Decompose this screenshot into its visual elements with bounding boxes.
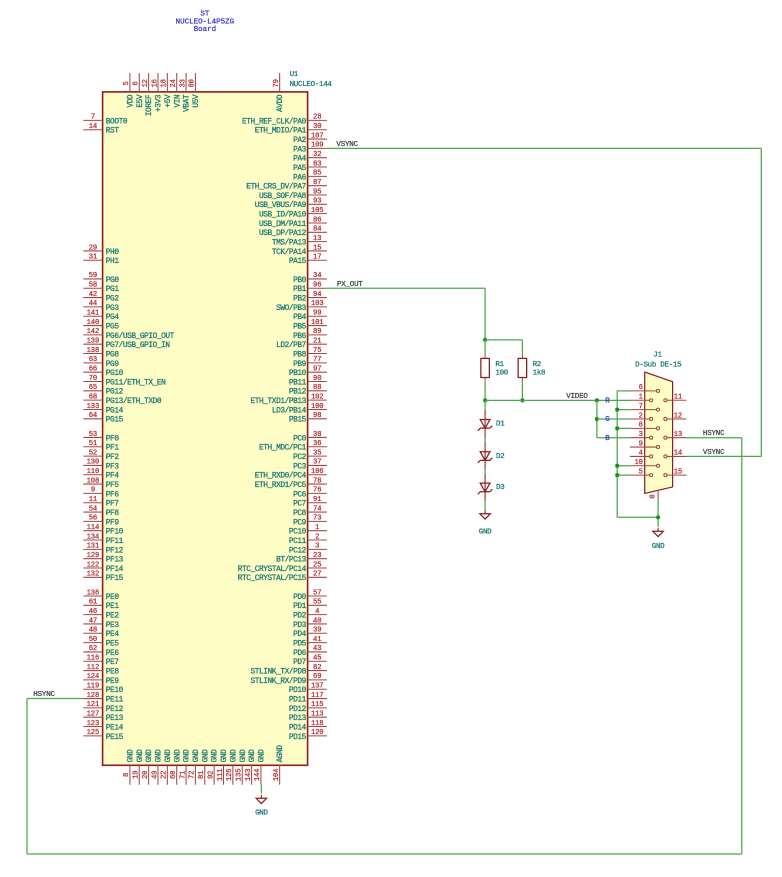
pin 58 PG1 (left) bbox=[83, 282, 119, 295]
pin 71 GND (bottom) bbox=[179, 749, 191, 785]
pin 32 PA4 (right) bbox=[293, 151, 327, 164]
svg-text:41: 41 bbox=[313, 636, 321, 644]
svg-text:127: 127 bbox=[87, 711, 100, 719]
svg-text:23: 23 bbox=[313, 552, 321, 560]
svg-text:PD5: PD5 bbox=[293, 641, 307, 649]
svg-text:PC12: PC12 bbox=[289, 547, 307, 555]
svg-text:HSYNC: HSYNC bbox=[33, 691, 55, 699]
svg-text:106: 106 bbox=[311, 468, 324, 476]
svg-text:117: 117 bbox=[311, 692, 324, 700]
pin 84 USB_DP/PA12 (right) bbox=[259, 226, 327, 239]
pin 5 VDD (top) bbox=[123, 73, 135, 108]
svg-text:34: 34 bbox=[313, 272, 321, 280]
svg-text:1: 1 bbox=[315, 524, 319, 532]
svg-text:119: 119 bbox=[87, 683, 100, 691]
wire GND bus vertical bbox=[616, 391, 618, 517]
wire VSYNC into J1 pin 14 bbox=[687, 455, 762, 457]
pin 35 PC2 (right) bbox=[293, 449, 327, 462]
svg-text:R2: R2 bbox=[533, 361, 541, 369]
svg-text:PD15: PD15 bbox=[289, 734, 307, 742]
pin 31 PH1 (left) bbox=[83, 254, 119, 267]
svg-text:142: 142 bbox=[87, 328, 100, 336]
pin 57 PD0 (right) bbox=[293, 589, 327, 602]
svg-text:113: 113 bbox=[311, 711, 324, 719]
svg-text:PE14: PE14 bbox=[106, 724, 124, 732]
svg-text:6: 6 bbox=[133, 81, 141, 85]
wire VSYNC horizontal from PA3 bbox=[327, 147, 761, 149]
pin 22 GND (bottom) bbox=[161, 749, 173, 785]
svg-text:HSYNC: HSYNC bbox=[703, 430, 725, 438]
svg-text:PD14: PD14 bbox=[289, 724, 307, 732]
svg-text:43: 43 bbox=[313, 645, 321, 653]
svg-text:13: 13 bbox=[674, 431, 682, 439]
svg-text:130: 130 bbox=[87, 459, 100, 467]
svg-text:GND: GND bbox=[255, 810, 268, 818]
svg-text:52: 52 bbox=[89, 449, 97, 457]
svg-text:110: 110 bbox=[87, 468, 100, 476]
svg-text:123: 123 bbox=[87, 720, 100, 728]
pin 108 PF5 (left) bbox=[83, 477, 119, 490]
svg-text:27: 27 bbox=[313, 571, 321, 579]
svg-text:VIDEO: VIDEO bbox=[566, 393, 588, 401]
svg-text:PA6: PA6 bbox=[293, 174, 307, 182]
svg-text:ETH_CRS_DV/PA7: ETH_CRS_DV/PA7 bbox=[246, 184, 306, 192]
pin 86 USB_DM/PA11 (right) bbox=[259, 216, 327, 229]
svg-text:61: 61 bbox=[89, 599, 97, 607]
pin 144 GND (bottom) bbox=[254, 749, 266, 785]
wire VSYNC vertical right side bbox=[760, 148, 762, 456]
pin 8 J1 (left) bbox=[630, 422, 658, 430]
svg-text:92: 92 bbox=[207, 771, 215, 779]
pin 53 PF0 (left) bbox=[83, 431, 119, 444]
svg-text:101: 101 bbox=[311, 319, 324, 327]
svg-text:87: 87 bbox=[313, 179, 321, 187]
svg-text:+5V: +5V bbox=[165, 94, 173, 108]
svg-text:19: 19 bbox=[133, 771, 141, 779]
wire D1 to D2 bbox=[484, 438, 486, 443]
pin 134 PF11 (left) bbox=[83, 533, 123, 546]
svg-text:R1: R1 bbox=[495, 361, 504, 369]
svg-text:GND: GND bbox=[221, 749, 229, 763]
connector J1 body bbox=[645, 372, 673, 493]
svg-text:76: 76 bbox=[313, 487, 321, 495]
wire R1 top to R2 top bbox=[485, 339, 522, 341]
svg-text:91: 91 bbox=[313, 496, 321, 504]
svg-text:88: 88 bbox=[313, 384, 321, 392]
wire HSYNC from J1 pin 13 bbox=[687, 437, 742, 439]
pin 19 GND (bottom) bbox=[133, 749, 145, 785]
pin 133 PG14 (left) bbox=[83, 403, 123, 416]
svg-text:79: 79 bbox=[273, 79, 281, 87]
pin 43 PD6 (right) bbox=[293, 645, 327, 658]
svg-text:J1: J1 bbox=[653, 351, 662, 359]
node junction pin 5 bbox=[615, 473, 619, 477]
pin 135 GND (bottom) bbox=[236, 749, 248, 785]
svg-text:RST: RST bbox=[106, 128, 120, 136]
svg-text:111: 111 bbox=[217, 769, 225, 782]
svg-text:139: 139 bbox=[87, 338, 100, 346]
pin 95 USB_SOF/PA8 (right) bbox=[259, 188, 327, 201]
svg-text:5: 5 bbox=[639, 468, 643, 476]
pin 60 GND (bottom) bbox=[170, 749, 182, 785]
pin 47 PE3 (left) bbox=[83, 617, 119, 630]
wire GND bus to pin 5 bbox=[617, 474, 630, 476]
svg-text:45: 45 bbox=[313, 655, 321, 663]
pin 97 PB10 (right) bbox=[289, 365, 327, 378]
svg-text:GND: GND bbox=[202, 749, 210, 763]
svg-text:99: 99 bbox=[313, 310, 321, 318]
svg-text:PF0: PF0 bbox=[106, 435, 120, 443]
svg-text:74: 74 bbox=[313, 505, 321, 513]
pin 83 PA5 (right) bbox=[293, 160, 327, 173]
pin 7 BOOT0 (left) bbox=[83, 114, 128, 127]
svg-text:USB_VBUS/PA9: USB_VBUS/PA9 bbox=[255, 202, 307, 210]
svg-text:PD11: PD11 bbox=[289, 696, 307, 704]
resistor R2 bbox=[518, 354, 545, 382]
pin 40 PD3 (right) bbox=[293, 617, 327, 630]
svg-text:109: 109 bbox=[311, 142, 324, 150]
pin 80 U5V (top) bbox=[189, 73, 201, 108]
svg-text:PB0: PB0 bbox=[293, 277, 307, 285]
pin 91 PC7 (right) bbox=[293, 496, 327, 509]
pin 115 PD12 (right) bbox=[289, 701, 327, 714]
svg-text:VIN: VIN bbox=[174, 94, 182, 108]
node junction R2 bottom / VIDEO bbox=[520, 398, 524, 402]
svg-text:ST: ST bbox=[200, 11, 210, 19]
svg-text:71: 71 bbox=[179, 771, 187, 779]
pin 52 PF2 (left) bbox=[83, 449, 119, 462]
svg-text:GND: GND bbox=[174, 749, 182, 763]
svg-text:136: 136 bbox=[87, 589, 100, 597]
svg-text:PE3: PE3 bbox=[106, 622, 120, 630]
svg-text:63: 63 bbox=[89, 356, 97, 364]
svg-text:PC11: PC11 bbox=[289, 538, 307, 546]
svg-text:73: 73 bbox=[313, 515, 321, 523]
svg-text:PC0: PC0 bbox=[293, 435, 307, 443]
svg-text:50: 50 bbox=[89, 636, 97, 644]
svg-text:8: 8 bbox=[123, 773, 131, 777]
svg-text:PF7: PF7 bbox=[106, 501, 120, 509]
svg-text:31: 31 bbox=[89, 254, 97, 262]
svg-text:PX_OUT: PX_OUT bbox=[337, 281, 364, 289]
pin 27 RTC_CRYSTAL/PC15 (right) bbox=[238, 571, 327, 584]
pin 87 ETH_CRS_DV/PA7 (right) bbox=[246, 179, 327, 192]
pin 123 PE14 (left) bbox=[83, 720, 123, 733]
svg-text:128: 128 bbox=[87, 692, 100, 700]
pin 37 PC3 (right) bbox=[293, 459, 327, 472]
svg-text:72: 72 bbox=[189, 771, 197, 779]
svg-text:PE5: PE5 bbox=[106, 641, 120, 649]
pin 92 GND (bottom) bbox=[207, 749, 219, 785]
node junction G branch bbox=[595, 417, 599, 421]
svg-text:42: 42 bbox=[89, 291, 97, 299]
pin 139 PG7/USB_GPIO_IN (left) bbox=[83, 338, 170, 351]
svg-text:118: 118 bbox=[311, 720, 324, 728]
svg-text:20: 20 bbox=[142, 771, 150, 779]
svg-text:PH1: PH1 bbox=[106, 258, 120, 266]
svg-text:PE7: PE7 bbox=[106, 659, 120, 667]
pin 117 PD11 (right) bbox=[289, 692, 327, 705]
svg-text:3: 3 bbox=[639, 431, 643, 439]
svg-text:105: 105 bbox=[311, 207, 324, 215]
svg-text:PD0: PD0 bbox=[293, 594, 307, 602]
svg-text:PE15: PE15 bbox=[106, 734, 124, 742]
svg-text:115: 115 bbox=[311, 701, 324, 709]
pin 125 PE15 (left) bbox=[83, 729, 123, 742]
pin 64 PG15 (left) bbox=[83, 412, 123, 425]
svg-text:PG9: PG9 bbox=[106, 361, 120, 369]
svg-text:6: 6 bbox=[639, 384, 643, 392]
svg-text:2: 2 bbox=[639, 412, 643, 420]
svg-text:15: 15 bbox=[313, 244, 321, 252]
pin 70 PG11/ETH_TX_EN (left) bbox=[83, 375, 166, 388]
node junction R1/R2 top bbox=[483, 338, 487, 342]
svg-text:ETH_MDC/PC1: ETH_MDC/PC1 bbox=[259, 445, 307, 453]
svg-text:48: 48 bbox=[89, 627, 97, 635]
pin 2 J1 (left) bbox=[630, 412, 651, 420]
pin 122 PF14 (left) bbox=[83, 561, 123, 574]
pin 96 PB1 (right) bbox=[293, 282, 327, 295]
svg-text:PA5: PA5 bbox=[293, 165, 307, 173]
pin 3 J1 (left) bbox=[630, 431, 651, 439]
pin 9 J1 (left) bbox=[630, 440, 658, 448]
svg-text:GND: GND bbox=[240, 749, 248, 763]
svg-text:PG14: PG14 bbox=[106, 407, 124, 415]
pin 1 PC10 (right) bbox=[289, 524, 327, 537]
svg-text:33: 33 bbox=[179, 79, 187, 87]
svg-text:8: 8 bbox=[639, 422, 643, 430]
pin 51 PF1 (left) bbox=[83, 440, 119, 453]
svg-text:98: 98 bbox=[313, 412, 321, 420]
pin 118 PD14 (right) bbox=[289, 720, 327, 733]
svg-text:BT/PC13: BT/PC13 bbox=[276, 557, 307, 565]
svg-text:STLINK_TX/PD8: STLINK_TX/PD8 bbox=[251, 668, 307, 676]
wire GND bus bottom bbox=[617, 516, 658, 518]
svg-text:112: 112 bbox=[87, 664, 100, 672]
svg-text:ETH_TXD1/PB13: ETH_TXD1/PB13 bbox=[251, 398, 307, 406]
svg-text:PG8: PG8 bbox=[106, 351, 120, 359]
pin 136 PE0 (left) bbox=[83, 589, 119, 602]
pin 131 PF12 (left) bbox=[83, 543, 123, 556]
svg-text:64: 64 bbox=[89, 412, 97, 420]
pin 17 PA15 (right) bbox=[289, 254, 327, 267]
pin 78 ETH_RXD1/PC5 (right) bbox=[255, 477, 327, 490]
svg-text:14: 14 bbox=[89, 123, 97, 131]
svg-text:B: B bbox=[605, 435, 610, 443]
pin 15 J1 (right) bbox=[665, 468, 686, 476]
svg-text:17: 17 bbox=[313, 254, 321, 262]
pin 127 PE13 (left) bbox=[83, 711, 123, 724]
svg-text:GND: GND bbox=[479, 528, 492, 536]
svg-text:86: 86 bbox=[313, 216, 321, 224]
svg-text:IOREF: IOREF bbox=[146, 94, 154, 116]
svg-text:1: 1 bbox=[639, 394, 643, 402]
svg-text:PC2: PC2 bbox=[293, 454, 307, 462]
svg-text:USB_ID/PA10: USB_ID/PA10 bbox=[259, 212, 307, 220]
pin 25 RTC_CRYSTAL/PC14 (right) bbox=[238, 561, 327, 574]
pin 109 PA3 (right) bbox=[293, 142, 327, 155]
svg-text:PB10: PB10 bbox=[289, 370, 307, 378]
svg-text:121: 121 bbox=[87, 701, 100, 709]
wire to J1 pin 3 (B) bbox=[597, 437, 630, 439]
pin 11 J1 (right) bbox=[665, 394, 686, 402]
svg-text:69: 69 bbox=[313, 673, 321, 681]
pin 20 GND (bottom) bbox=[142, 749, 154, 785]
svg-text:PG0: PG0 bbox=[106, 277, 120, 285]
svg-text:107: 107 bbox=[311, 132, 324, 140]
svg-text:PF10: PF10 bbox=[106, 529, 124, 537]
svg-text:PD3: PD3 bbox=[293, 622, 307, 630]
svg-text:GND: GND bbox=[249, 749, 257, 763]
svg-text:GND: GND bbox=[212, 749, 220, 763]
pin 102 ETH_TXD1/PB13 (right) bbox=[251, 393, 327, 406]
svg-text:PF4: PF4 bbox=[106, 473, 120, 481]
svg-text:U5V: U5V bbox=[193, 94, 201, 108]
svg-text:38: 38 bbox=[313, 431, 321, 439]
svg-text:PG3: PG3 bbox=[106, 305, 120, 313]
svg-text:PF15: PF15 bbox=[106, 575, 124, 583]
svg-text:2: 2 bbox=[315, 533, 319, 541]
svg-text:11: 11 bbox=[89, 496, 97, 504]
svg-text:100: 100 bbox=[311, 403, 324, 411]
svg-text:104: 104 bbox=[273, 769, 281, 782]
node junction VIDEO branch bbox=[595, 398, 599, 402]
pin 69 STLINK_RX/PD9 (right) bbox=[251, 673, 327, 686]
svg-text:PB2: PB2 bbox=[293, 295, 307, 303]
pin 100 LD3/PB14 (right) bbox=[272, 403, 327, 416]
svg-text:PD13: PD13 bbox=[289, 715, 307, 723]
svg-text:1k8: 1k8 bbox=[533, 370, 546, 378]
svg-text:PF14: PF14 bbox=[106, 566, 124, 574]
svg-text:59: 59 bbox=[89, 272, 97, 280]
svg-text:82: 82 bbox=[313, 664, 321, 672]
svg-text:32: 32 bbox=[313, 151, 321, 159]
svg-text:116: 116 bbox=[87, 655, 100, 663]
diode D3 bbox=[478, 474, 505, 501]
svg-text:G: G bbox=[605, 416, 609, 424]
svg-text:PE9: PE9 bbox=[106, 678, 120, 686]
pin 72 GND (bottom) bbox=[189, 749, 201, 785]
ground below J1 bbox=[652, 528, 665, 551]
svg-text:PG11/ETH_TX_EN: PG11/ETH_TX_EN bbox=[106, 379, 166, 387]
pin 9 PF6 (left) bbox=[83, 487, 119, 500]
pin 11 PF7 (left) bbox=[83, 496, 119, 509]
svg-text:E5V: E5V bbox=[137, 94, 145, 108]
pin 4 J1 (left) bbox=[630, 450, 651, 458]
pin 0 J1 shield bbox=[650, 490, 659, 501]
pin 103 SWO/PB3 (right) bbox=[276, 300, 327, 313]
svg-text:49: 49 bbox=[151, 771, 159, 779]
svg-text:Board: Board bbox=[194, 26, 217, 34]
node junction pin 8 bbox=[615, 426, 619, 430]
pin 90 PB11 (right) bbox=[289, 375, 327, 388]
svg-text:PE11: PE11 bbox=[106, 696, 124, 704]
pin 55 PD1 (right) bbox=[293, 599, 327, 612]
pin 142 PG6/USB_GPIO_OUT (left) bbox=[83, 328, 174, 341]
svg-text:PD2: PD2 bbox=[293, 613, 307, 621]
pin 110 PF4 (left) bbox=[83, 468, 119, 481]
pin 121 PE12 (left) bbox=[83, 701, 123, 714]
svg-text:PD4: PD4 bbox=[293, 631, 307, 639]
svg-text:102: 102 bbox=[311, 393, 324, 401]
svg-text:AGND: AGND bbox=[277, 745, 285, 763]
svg-text:VSYNC: VSYNC bbox=[703, 449, 725, 457]
svg-text:0: 0 bbox=[650, 494, 658, 498]
svg-text:78: 78 bbox=[313, 477, 321, 485]
svg-text:LD3/PB14: LD3/PB14 bbox=[272, 407, 307, 415]
svg-text:13: 13 bbox=[313, 235, 321, 243]
svg-text:120: 120 bbox=[311, 729, 324, 737]
svg-text:89: 89 bbox=[313, 328, 321, 336]
wire HSYNC vertical left bbox=[26, 699, 28, 854]
svg-text:USB_SOF/PA8: USB_SOF/PA8 bbox=[259, 193, 307, 201]
svg-text:PE12: PE12 bbox=[106, 706, 124, 714]
svg-text:PB9: PB9 bbox=[293, 361, 307, 369]
wire HSYNC vertical right bbox=[741, 438, 743, 854]
svg-text:122: 122 bbox=[87, 561, 100, 569]
pin 30 ETH_MDIO/PA1 (right) bbox=[255, 123, 327, 136]
svg-text:ETH_MDIO/PA1: ETH_MDIO/PA1 bbox=[255, 128, 307, 136]
pin 59 PG0 (left) bbox=[83, 272, 119, 285]
pin 63 PG9 (left) bbox=[83, 356, 119, 369]
svg-text:70: 70 bbox=[89, 375, 97, 383]
pin 16 +3V3 (top) bbox=[151, 73, 163, 112]
svg-text:USB_DM/PA11: USB_DM/PA11 bbox=[259, 221, 307, 229]
svg-text:135: 135 bbox=[236, 769, 244, 782]
svg-text:PD1: PD1 bbox=[293, 603, 307, 611]
svg-text:GND: GND bbox=[156, 749, 164, 763]
pin 77 PB9 (right) bbox=[293, 356, 327, 369]
svg-text:7: 7 bbox=[639, 403, 643, 411]
svg-text:GND: GND bbox=[127, 749, 135, 763]
pin 13 J1 (right) bbox=[665, 431, 686, 439]
svg-text:96: 96 bbox=[313, 282, 321, 290]
node junction shield/GND bbox=[656, 515, 660, 519]
svg-text:PD6: PD6 bbox=[293, 650, 307, 658]
pin 21 LD2/PB7 (right) bbox=[276, 338, 327, 351]
pin 107 PA2 (right) bbox=[293, 132, 327, 145]
svg-text:21: 21 bbox=[313, 338, 321, 346]
svg-text:PF2: PF2 bbox=[106, 454, 120, 462]
svg-text:TMS/PA13: TMS/PA13 bbox=[272, 240, 307, 248]
pin 34 PB0 (right) bbox=[293, 272, 327, 285]
svg-text:14: 14 bbox=[674, 450, 682, 458]
pin 39 PD4 (right) bbox=[293, 627, 327, 640]
pin 88 PB12 (right) bbox=[289, 384, 327, 397]
svg-text:PD12: PD12 bbox=[289, 706, 307, 714]
wire D3 to GND bbox=[484, 501, 486, 510]
svg-text:PA2: PA2 bbox=[293, 137, 307, 145]
pin 33 VBAT (top) bbox=[179, 73, 191, 112]
pin 1 J1 (left) bbox=[630, 394, 651, 402]
svg-text:53: 53 bbox=[89, 431, 97, 439]
pin 10 J1 (left) bbox=[630, 459, 658, 467]
J1 pin holes bbox=[650, 389, 667, 476]
pin 46 PE2 (left) bbox=[83, 608, 119, 621]
pin 49 GND (bottom) bbox=[151, 749, 163, 785]
pin 73 PC9 (right) bbox=[293, 515, 327, 528]
svg-text:12: 12 bbox=[674, 412, 682, 420]
pin 129 PF13 (left) bbox=[83, 552, 123, 565]
svg-text:RTC_CRYSTAL/PC15: RTC_CRYSTAL/PC15 bbox=[238, 575, 307, 583]
svg-text:PF13: PF13 bbox=[106, 557, 124, 565]
svg-text:PF5: PF5 bbox=[106, 482, 120, 490]
svg-text:125: 125 bbox=[87, 729, 100, 737]
pin 13 TMS/PA13 (right) bbox=[272, 235, 327, 248]
svg-text:PB15: PB15 bbox=[289, 417, 307, 425]
svg-text:85: 85 bbox=[313, 170, 321, 178]
svg-text:LD2/PB7: LD2/PB7 bbox=[276, 342, 307, 350]
